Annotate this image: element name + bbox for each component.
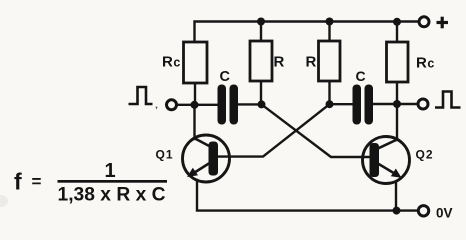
svg-text:C: C [220, 69, 231, 85]
transistor Q2 [363, 137, 410, 184]
junction dot top above Rc2 [393, 18, 401, 26]
wire node D to Q2 collector [396, 104, 398, 140]
svg-text:0V: 0V [436, 206, 453, 221]
wire R2 top lead [328, 22, 330, 42]
wire C2 right plate to node D [374, 103, 398, 105]
resistor R1 [250, 41, 272, 81]
wire C1 right plate to node B [238, 103, 262, 105]
svg-text:Rc: Rc [416, 55, 435, 72]
svg-text:C: C [356, 68, 366, 84]
wire top rail with corner down to left Rc [195, 22, 420, 42]
wire input terminal to node A [178, 104, 218, 106]
input terminal [167, 100, 177, 110]
wire R1 top lead [260, 22, 262, 42]
plus supply terminal [419, 17, 429, 27]
junction dot top above R1 [257, 18, 265, 26]
scan artifact comma [156, 107, 158, 110]
wire R1 bottom lead [260, 81, 262, 104]
junction node D Rc2 bottom [393, 100, 401, 108]
formula f = 1 / 1,38 x R x C [14, 160, 167, 206]
output terminal [418, 99, 428, 109]
junction node B R1 bottom [258, 100, 266, 108]
wire Rc2 top lead [396, 22, 398, 43]
wire node D to output terminal [397, 103, 418, 105]
wire Rc2 bottom lead [396, 82, 398, 104]
svg-text:1,38 x R x C: 1,38 x R x C [58, 185, 166, 206]
svg-text:Q2: Q2 [416, 148, 434, 162]
junction dot top above R2 [326, 18, 334, 26]
resistor Rc1 [184, 42, 208, 83]
svg-text:=: = [32, 172, 42, 191]
wire node C to C2 left plate [330, 103, 353, 105]
svg-text:Q1: Q1 [156, 148, 174, 162]
capacitor C2 [353, 85, 374, 125]
wire Q1 emitter lead to bottom rail [197, 180, 418, 211]
wire cross-coupling node C to Q1 base [218, 104, 330, 156]
wire cross-coupling node B to Q2 base [262, 104, 371, 157]
wire Rc1 bottom lead [194, 83, 196, 105]
wire node A to Q1 collector [193, 105, 195, 139]
svg-text:R: R [306, 54, 317, 71]
svg-text:1: 1 [105, 160, 116, 182]
junction node A input/Rc1/Q1 [191, 101, 199, 109]
label plus [437, 17, 449, 29]
scan smudge bottom-left corner [0, 195, 8, 207]
transistor Q1 [183, 135, 230, 182]
svg-text:R: R [274, 54, 285, 71]
svg-text:f: f [14, 169, 22, 195]
wire R2 bottom lead [328, 81, 330, 104]
resistor R2 [319, 41, 341, 81]
junction dot bottom rail Q2 emitter [393, 207, 401, 215]
wire Q2 emitter lead [395, 182, 397, 211]
capacitor C1 [218, 85, 239, 125]
input pulse waveform [129, 87, 153, 104]
output pulse waveform [435, 92, 461, 108]
svg-text:Rc: Rc [162, 54, 181, 71]
resistor Rc2 [387, 42, 409, 82]
0V terminal [418, 206, 428, 216]
junction node C R2 bottom [326, 100, 334, 108]
